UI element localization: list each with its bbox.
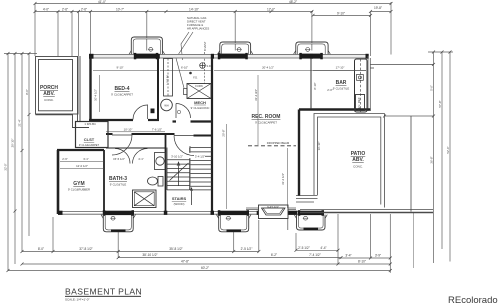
rec east dim line [287,148,289,208]
svg-text:REC. ROOM: REC. ROOM [252,114,281,120]
svg-text:10'-10": 10'-10" [124,128,133,132]
svg-text:3'-10 1/2": 3'-10 1/2" [171,155,183,159]
bottom dim tier 2 [118,257,341,259]
svg-text:1 R/S B4: 1 R/S B4 [84,122,96,126]
bottom wall dark window segments [58,210,324,216]
svg-text:4'-1": 4'-1" [138,157,144,161]
svg-text:FURN: FURN [195,84,202,88]
hall south wall [106,133,113,135]
svg-text:F.D.: F.D. [193,76,198,80]
svg-text:ABV.: ABV. [352,157,364,163]
stair rail below [191,188,193,205]
beverage ref [356,95,365,111]
top dim line tier B right [313,14,371,16]
stairs west wall [165,134,167,211]
svg-text:21'-4": 21'-4" [18,119,22,126]
svg-text:HR APPLIANCES: HR APPLIANCES [187,27,209,31]
svg-text:20'-8": 20'-8" [222,129,226,136]
mech south wall segments [173,120,177,122]
svg-text:BAR: BAR [336,80,347,86]
label gym [68,181,90,192]
label porch [40,85,58,102]
svg-text:2'-5 1/2": 2'-5 1/2" [241,247,253,251]
note leader line 2 [176,32,193,88]
right exterior wall (bar) [367,56,369,111]
window well W3 [294,42,331,54]
svg-text:12'-0 1/2": 12'-0 1/2" [76,164,88,168]
svg-text:7'-6 1/2": 7'-6 1/2" [152,128,162,132]
fp side walls [246,208,296,230]
bottom dim tier 1b [296,249,338,251]
right dim verticals [433,52,435,263]
top wall dark window segments [89,53,369,59]
left top tick line [4,53,37,55]
dimension arrow ticks [7,2,452,272]
smoke detector [200,63,206,69]
svg-text:CONC.: CONC. [353,165,363,169]
stair stringer [189,146,191,190]
stair break line [170,163,189,181]
svg-text:48'-2": 48'-2" [289,0,297,4]
svg-text:15'-5 1/2": 15'-5 1/2" [113,157,125,161]
gas fireplace [259,205,289,219]
svg-text:GYM: GYM [73,181,84,187]
svg-text:9' CLG&CARPET: 9' CLG&CARPET [79,143,100,147]
gym west wall [57,150,60,214]
toilet [148,177,164,187]
title basement plan [65,287,142,302]
patio outer border [314,114,384,208]
svg-text:GAS F.P.: GAS F.P. [267,205,279,209]
svg-text:9' CLG&CARPET: 9' CLG&CARPET [255,121,277,125]
svg-text:CLST: CLST [84,137,95,142]
svg-text:3'-9": 3'-9" [375,254,381,258]
door bed-4 [133,105,148,120]
label bar [333,80,350,91]
svg-text:MECH: MECH [194,100,206,105]
svg-text:10'-7": 10'-7" [116,8,124,12]
svg-text:9' CLG&TILE: 9' CLG&TILE [110,183,127,187]
window well W5 [216,215,251,232]
svg-text:9'-10": 9'-10" [116,65,123,69]
top exterior wall light band [89,54,369,58]
label mech [191,100,210,110]
clst room [76,122,109,148]
svg-text:(WOOD): (WOOD) [174,202,185,206]
furnace note text [187,16,209,31]
svg-text:S.D.: S.D. [206,64,211,68]
svg-text:2'-0": 2'-0" [327,88,333,92]
window well W2 [218,42,253,54]
svg-text:STAIRS: STAIRS [172,196,187,201]
top dim line tier B [35,11,313,13]
svg-text:BEV. REF: BEV. REF [357,97,361,111]
svg-text:BED-4: BED-4 [114,86,129,92]
svg-text:6'-2": 6'-2" [271,253,277,257]
note leader line [181,32,189,60]
svg-text:36'-8": 36'-8" [430,156,434,163]
svg-text:9' CLG&CARPET: 9' CLG&CARPET [111,93,133,97]
bottom dim tier 2b [338,257,390,259]
dropped beam dashed [248,145,296,147]
window well W4 [101,215,136,232]
svg-text:9' CLG&CONC: 9' CLG&CONC [191,106,210,110]
bar counter [355,59,368,112]
svg-text:REcolorado: REcolorado [448,295,498,303]
interior dim lines [60,70,366,168]
rec room east wall [298,110,300,197]
bar sink [357,75,364,81]
gym east wall [103,150,105,211]
window well W1 [129,37,165,54]
right top tick line [428,51,453,53]
stair arrow [178,163,180,186]
svg-text:19'-8": 19'-8" [374,6,382,10]
svg-text:8'-0": 8'-0" [25,89,29,95]
svg-text:8'-10": 8'-10" [313,82,317,89]
svg-text:ABV.: ABV. [43,91,55,97]
svg-text:SCALE: 1/4"=1'-0": SCALE: 1/4"=1'-0" [65,298,89,302]
bifold closet doors [115,149,148,164]
door jamb block [151,109,155,114]
stair dim white patch [168,153,205,158]
bottom droppers [52,217,54,252]
bed4 south wall segments [89,119,133,121]
right mid tick line to patio top [385,115,434,117]
svg-text:2'-6": 2'-6" [62,8,68,12]
svg-text:2'-6": 2'-6" [81,8,87,12]
svg-text:37'-8 1/2": 37'-8 1/2" [79,247,92,251]
bottom exterior wall light band [58,210,300,212]
svg-text:10'-4 1/2": 10'-4 1/2" [94,89,98,101]
bottom dim tier 4 [8,270,390,272]
vanity sink [155,153,166,170]
svg-text:60'-2": 60'-2" [201,266,209,270]
mech east / stairs east wall [211,58,213,211]
svg-text:57'-8": 57'-8" [438,100,442,107]
svg-text:9'-10": 9'-10" [337,11,345,15]
chase beside bed4 [164,59,173,97]
svg-text:BATH-3: BATH-3 [109,176,127,182]
svg-text:CONC.: CONC. [44,98,54,102]
door hall/bath double [112,135,194,156]
bed4 / mech wall [157,58,159,120]
svg-text:5'-6": 5'-6" [430,85,434,91]
label bed-4 [111,86,133,97]
door mech [176,104,191,119]
svg-text:1 R/S B4: 1 R/S B4 [167,75,170,85]
gym north wall [57,149,104,151]
rec dim line at stairs [226,124,228,209]
svg-text:32'-0": 32'-0" [4,163,8,170]
bed4 west wall [89,56,91,121]
svg-text:31'-2 1/4": 31'-2 1/4" [281,173,285,185]
svg-text:3'-1": 3'-1" [83,157,89,161]
b-vent dashed [204,52,206,84]
label patio [351,151,366,169]
top dim tick verticals [34,4,36,57]
svg-text:9' CLG&RUBBER: 9' CLG&RUBBER [68,188,90,192]
label stairs [172,196,187,206]
bottom dim tier 3 [22,263,390,265]
patio bottom edge [300,209,433,211]
svg-text:WH: WH [164,103,168,107]
bath closet wall [106,147,166,149]
porch right strip wall [77,56,79,121]
svg-text:38'-10 1/2": 38'-10 1/2" [142,253,157,257]
label rec room [252,114,281,125]
svg-text:4'-0": 4'-0" [43,8,49,12]
svg-text:8'-10": 8'-10" [358,260,366,264]
svg-text:20'-4 1/2": 20'-4 1/2" [262,65,274,69]
svg-text:2'-6": 2'-6" [62,157,68,161]
left dim verticals [7,54,9,271]
svg-text:2'-5 1/2": 2'-5 1/2" [298,246,310,250]
svg-text:3'-4 1/2": 3'-4 1/2" [195,155,205,159]
svg-text:16'-10": 16'-10" [317,142,321,151]
svg-text:3'-4": 3'-4" [345,254,351,258]
floor drain [189,72,192,75]
label clst [79,137,100,147]
svg-text:DROPPED BEAM: DROPPED BEAM [267,141,290,145]
svg-text:20'-10": 20'-10" [11,139,15,148]
deck above outline [371,63,434,65]
svg-text:8'-0": 8'-0" [38,247,44,251]
svg-text:17'-10": 17'-10" [336,66,345,70]
svg-text:BASEMENT PLAN: BASEMENT PLAN [65,287,142,297]
svg-text:31'-4 3/4": 31'-4 3/4" [254,89,258,101]
patio east thin line [410,116,412,212]
top dim line tier A [35,3,391,5]
svg-text:4'-4": 4'-4" [320,246,326,250]
svg-text:47'-8": 47'-8" [181,260,189,264]
bar west wall [310,58,312,109]
porch outline [36,56,90,128]
furnace [184,84,212,99]
water heater [161,99,173,111]
shower [133,190,157,208]
svg-text:14'-10": 14'-10" [189,8,199,12]
window well W6 [294,215,327,230]
label bath-3 [109,176,127,187]
svg-text:7'-4 1/2": 7'-4 1/2" [309,253,321,257]
svg-text:35'-8 1/2": 35'-8 1/2" [169,247,182,251]
svg-text:6'-10": 6'-10" [181,65,188,69]
patio inner border [318,117,381,205]
bottom dim tier 1 [22,251,259,253]
svg-text:9' CLG&TILE: 9' CLG&TILE [333,87,350,91]
patio door step [296,195,318,197]
svg-text:12'-0": 12'-0" [267,8,275,12]
svg-text:B-VENT: B-VENT [203,41,207,51]
svg-text:52'-6": 52'-6" [446,146,450,153]
svg-text:41'-0": 41'-0" [98,0,106,4]
bar south wall [299,108,371,111]
